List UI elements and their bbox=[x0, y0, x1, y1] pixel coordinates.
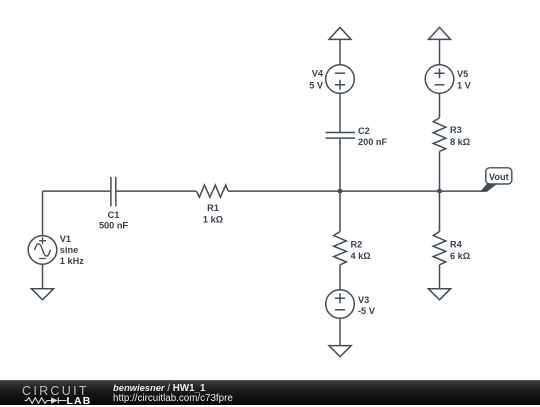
wire bbox=[439, 265, 441, 289]
wire bbox=[42, 264, 44, 289]
svg-text:Vout: Vout bbox=[489, 172, 509, 182]
resistor R2 bbox=[334, 232, 347, 265]
svg-text:1 V: 1 V bbox=[457, 81, 472, 91]
wire bbox=[439, 39, 441, 64]
svg-text:8 kΩ: 8 kΩ bbox=[450, 137, 470, 147]
svg-text:R3: R3 bbox=[450, 125, 462, 135]
wire bbox=[339, 191, 341, 231]
svg-text:V5: V5 bbox=[457, 69, 468, 79]
wire bbox=[117, 190, 197, 192]
logo LAB bbox=[67, 395, 92, 407]
logo circuit drawing (resistor + diode) bbox=[24, 397, 67, 404]
wire bbox=[339, 318, 341, 345]
ground bbox=[329, 346, 351, 357]
voltage source V4 bbox=[326, 65, 355, 94]
svg-text:C1: C1 bbox=[108, 210, 120, 220]
junction node bbox=[338, 189, 343, 194]
svg-text:4 kΩ: 4 kΩ bbox=[351, 251, 371, 261]
label R3 bbox=[450, 125, 470, 147]
wire bbox=[439, 191, 441, 231]
svg-text:C2: C2 bbox=[358, 126, 370, 136]
svg-text:R1: R1 bbox=[207, 203, 219, 213]
capacitor C2 bbox=[326, 133, 355, 139]
resistor R3 bbox=[433, 118, 446, 152]
svg-text:-5 V: -5 V bbox=[358, 306, 376, 316]
svg-text:R4: R4 bbox=[450, 240, 463, 250]
label R4 bbox=[450, 240, 470, 261]
wire bbox=[339, 139, 341, 191]
wire bbox=[42, 191, 44, 236]
label Vout bbox=[489, 172, 509, 182]
footer bar bbox=[0, 380, 540, 405]
wire bbox=[228, 190, 481, 192]
label V3 bbox=[358, 295, 376, 316]
capacitor C1 bbox=[111, 177, 116, 207]
wire bbox=[439, 93, 441, 117]
svg-text:200 nF: 200 nF bbox=[358, 137, 387, 147]
wire bbox=[339, 39, 341, 64]
junction node bbox=[437, 189, 442, 194]
label C1 bbox=[99, 210, 128, 231]
svg-text:V3: V3 bbox=[358, 295, 369, 305]
svg-text:V1: V1 bbox=[60, 234, 71, 244]
power rail arrow (V5 top) bbox=[429, 27, 451, 39]
node Vout flag bbox=[480, 168, 512, 192]
wire bbox=[43, 190, 111, 192]
svg-text:R2: R2 bbox=[351, 240, 363, 250]
label V5 bbox=[457, 69, 472, 91]
wire bbox=[339, 93, 341, 132]
wire bbox=[439, 151, 441, 191]
voltage source V1 bbox=[28, 236, 57, 265]
credit text bbox=[113, 383, 233, 404]
voltage source V3 bbox=[326, 290, 355, 319]
label C2 bbox=[358, 126, 387, 147]
svg-text:6 kΩ: 6 kΩ bbox=[450, 251, 470, 261]
power rail arrow (V4 top) bbox=[329, 27, 351, 39]
svg-text:500 nF: 500 nF bbox=[99, 221, 128, 231]
resistor R4 bbox=[433, 232, 446, 265]
ground bbox=[428, 289, 450, 300]
ground bbox=[31, 289, 53, 300]
logo CIRCUIT bbox=[22, 384, 89, 398]
label V4 bbox=[309, 69, 324, 91]
svg-text:1 kΩ: 1 kΩ bbox=[203, 215, 223, 225]
svg-text:V4: V4 bbox=[312, 69, 324, 79]
svg-text:5 V: 5 V bbox=[309, 81, 324, 91]
wire bbox=[339, 265, 341, 290]
label R2 bbox=[351, 240, 371, 261]
voltage source V5 bbox=[425, 65, 454, 94]
svg-text:1 kHz: 1 kHz bbox=[60, 256, 84, 266]
label R1 bbox=[203, 203, 223, 225]
resistor R1 bbox=[196, 185, 228, 197]
svg-text:sine: sine bbox=[60, 245, 78, 255]
label V1 bbox=[60, 234, 84, 266]
